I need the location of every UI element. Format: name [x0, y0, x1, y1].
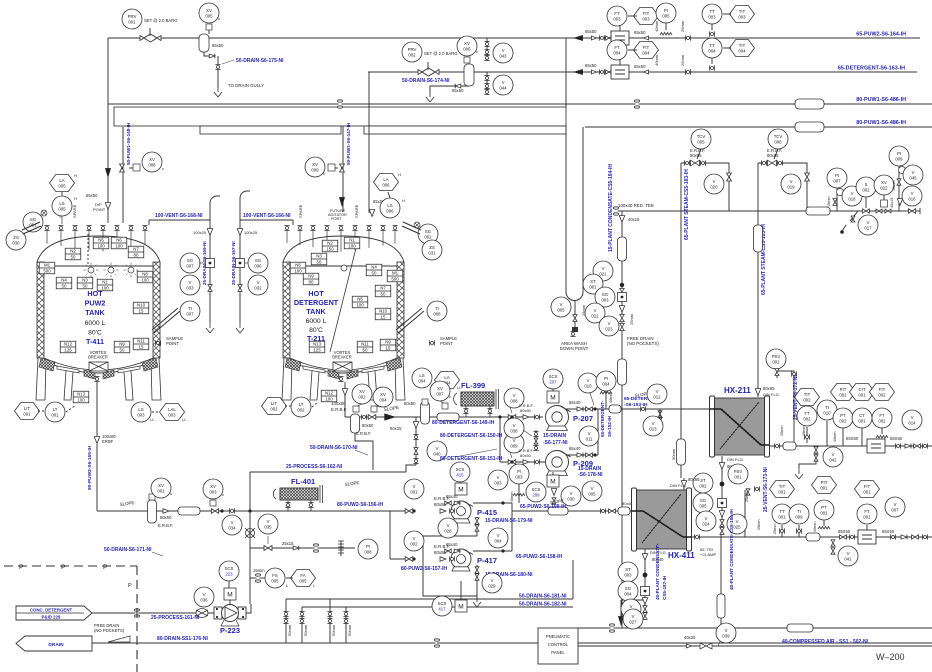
svg-text:008: 008 — [364, 549, 372, 554]
wire TCV-005 bypass loop — [681, 163, 729, 211]
instrument LA-004 — [435, 372, 460, 389]
nozzle box N10 T-211 — [375, 308, 391, 320]
reducer 100x25 — [207, 229, 212, 236]
nozzle row T-411 — [44, 225, 49, 230]
wire P-417 discharge — [473, 550, 512, 552]
manway flange T-211 — [402, 222, 421, 234]
instrument FIT-002 — [870, 384, 895, 401]
svg-text:40-PLANT CONDENSATE-CS5-186-IH: 40-PLANT CONDENSATE-CS5-186-IH — [729, 508, 734, 590]
svg-text:TI: TI — [188, 306, 192, 311]
pump P-209 — [546, 451, 571, 476]
motor P-417 — [455, 600, 467, 612]
instrument V-012 — [647, 384, 667, 404]
instrument V-016 — [902, 186, 922, 206]
pipe 80-DETERGENT-S6-149-IH — [345, 416, 543, 418]
svg-text:TT: TT — [804, 411, 810, 416]
instrument S-002 — [856, 177, 876, 197]
svg-text:018: 018 — [848, 196, 856, 201]
valve — [211, 509, 218, 513]
valve — [908, 209, 915, 213]
instrument PSV-002 — [766, 349, 786, 369]
svg-text:50-DRAIN-S6-170-NI: 50-DRAIN-S6-170-NI — [310, 445, 358, 451]
svg-text:V: V — [608, 321, 611, 326]
instrument V-028 — [438, 518, 458, 538]
svg-text:022: 022 — [880, 185, 888, 190]
svg-text:25-PROCESS-161-NI: 25-PROCESS-161-NI — [151, 615, 200, 621]
instrument XV-005 — [199, 3, 219, 23]
svg-text:40mm: 40mm — [833, 431, 837, 442]
svg-text:FIT: FIT — [864, 484, 871, 489]
spray ball T-211 — [341, 265, 347, 271]
svg-text:65X50: 65X50 — [846, 436, 859, 441]
svg-text:V: V — [502, 48, 505, 53]
svg-text:TIT: TIT — [804, 392, 811, 397]
svg-text:N11: N11 — [361, 342, 369, 347]
svg-text:100: 100 — [115, 244, 123, 249]
svg-text:027: 027 — [629, 619, 637, 624]
svg-text:25mm: 25mm — [680, 20, 685, 32]
instrument LS-004 — [412, 368, 432, 388]
instrument TT-002 — [797, 406, 817, 426]
svg-text:009: 009 — [895, 156, 903, 161]
nozzle box N6 — [111, 237, 127, 249]
svg-text:40x15: 40x15 — [628, 217, 640, 222]
instrument SG-007 — [180, 253, 200, 273]
svg-text:002: 002 — [772, 359, 780, 364]
svg-text:40-PLANT CONDENSATE-: 40-PLANT CONDENSATE- — [655, 543, 660, 600]
wire P-417 drain — [476, 565, 478, 600]
svg-text:TI: TI — [435, 306, 439, 311]
instrument V-024 — [696, 511, 716, 531]
wire drain riser 2 — [301, 607, 303, 643]
svg-text:043: 043 — [499, 53, 507, 58]
svg-text:002: 002 — [408, 52, 416, 57]
svg-text:40-COMPRESSED AIR - SS1 - 502-: 40-COMPRESSED AIR - SS1 - 502-NI — [782, 639, 869, 645]
nozzle box N2 T-211 — [322, 240, 338, 252]
svg-text:SCS: SCS — [438, 601, 447, 606]
instrument TI-010 — [817, 400, 837, 420]
wire steam into HX-411 — [683, 478, 685, 490]
svg-text:002: 002 — [297, 407, 305, 412]
svg-text:CT: CT — [859, 413, 865, 418]
flame arrester — [148, 500, 157, 523]
instrument V-029 — [482, 573, 502, 593]
instrument PI-003 — [509, 464, 529, 484]
instrument XV-002 — [352, 384, 372, 404]
svg-text:80x50: 80x50 — [520, 408, 532, 413]
tank T-211 — [282, 236, 405, 400]
instrument SG-004 — [618, 581, 638, 601]
instrument TIT-004 — [730, 40, 755, 57]
valve — [658, 411, 662, 417]
svg-text:N6: N6 — [295, 263, 301, 268]
wire FS-005 branch — [250, 577, 266, 579]
wire condensate loop left leg — [565, 126, 567, 292]
svg-text:80-PUW1-S6-486-IH: 80-PUW1-S6-486-IH — [856, 97, 906, 103]
svg-text:c: c — [218, 16, 220, 21]
svg-text:PSV: PSV — [772, 354, 781, 359]
instrument TIT-001 — [770, 481, 795, 498]
svg-text:V: V — [413, 536, 416, 541]
instrument FA-005 — [291, 570, 316, 587]
svg-text:80-PUW2-S6-156-IH: 80-PUW2-S6-156-IH — [337, 502, 384, 508]
nozzle box N9b T-211 — [380, 339, 396, 351]
instrument V-017 — [858, 215, 878, 235]
wire riser from 65-PUW2 line — [565, 38, 567, 107]
instrument V-025 — [727, 514, 747, 534]
instrument SG-003 — [595, 287, 615, 307]
motor P-223 — [224, 588, 236, 600]
pump P-223 — [214, 605, 246, 627]
instrument TI-008 — [427, 301, 447, 321]
flame arrester — [421, 402, 430, 424]
meter run 65-DETERGENT — [573, 69, 583, 75]
expansion joint — [795, 122, 824, 132]
pneumatic control panel — [538, 628, 578, 664]
svg-text:002: 002 — [410, 541, 418, 546]
svg-text:50: 50 — [381, 292, 386, 297]
thermowell TI-007 — [152, 308, 180, 333]
svg-text:003: 003 — [494, 480, 502, 485]
svg-text:006: 006 — [463, 46, 471, 51]
wire condensate drain — [620, 600, 622, 624]
svg-text:LS: LS — [387, 203, 392, 208]
svg-text:SG: SG — [625, 586, 632, 591]
svg-text:V: V — [736, 519, 739, 524]
svg-text:005: 005 — [588, 491, 596, 496]
svg-text:65X50: 65X50 — [882, 529, 895, 534]
P-417 suction valve — [405, 557, 413, 562]
svg-text:003: 003 — [708, 14, 716, 19]
valve — [475, 574, 479, 580]
svg-text:125: 125 — [64, 348, 72, 353]
instrument V-022 — [585, 303, 605, 323]
svg-text:005: 005 — [58, 183, 66, 188]
spray balls T-411 — [88, 267, 94, 273]
svg-text:40mm: 40mm — [654, 54, 659, 66]
svg-text:030: 030 — [567, 496, 575, 501]
svg-text:PIT: PIT — [840, 387, 847, 392]
svg-text:N4: N4 — [371, 265, 377, 270]
svg-text:003: 003 — [209, 489, 217, 494]
instrument V-010 — [578, 373, 598, 393]
instrument ZS-031 — [422, 240, 442, 260]
svg-text:125: 125 — [313, 348, 321, 353]
svg-text:V: V — [513, 423, 516, 428]
svg-text:V: V — [652, 421, 655, 426]
svg-text:004: 004 — [624, 591, 632, 596]
svg-text:004: 004 — [738, 48, 746, 53]
offsheet banner CONC. DETERGENT — [16, 606, 92, 620]
vent drain point — [206, 320, 214, 333]
svg-text:P-415: P-415 — [477, 508, 497, 517]
instrument V-035 — [258, 514, 278, 534]
svg-text:500: 500 — [43, 269, 51, 274]
svg-text:100x25: 100x25 — [193, 230, 207, 235]
instrument XV-009 — [305, 157, 325, 177]
instrument FS-005 — [265, 568, 285, 588]
svg-text:N12: N12 — [325, 391, 334, 396]
wire TCV-006 bypass loop — [758, 163, 807, 211]
svg-text:PT: PT — [840, 413, 846, 418]
instrument LIT-002 — [262, 398, 287, 415]
svg-text:V: V — [502, 80, 505, 85]
flow arrow down — [339, 197, 345, 207]
svg-text:001: 001 — [51, 412, 59, 417]
svg-text:PRV: PRV — [128, 14, 137, 19]
svg-text:V: V — [588, 431, 591, 436]
svg-text:044: 044 — [499, 85, 507, 90]
filter FL-399 — [454, 389, 499, 409]
wire 15-PLANT CONDENSATE / 40-PLANT CONDENSATE-CS5-185-IH — [621, 211, 623, 628]
svg-text:50-PUW1-S6-148-IH: 50-PUW1-S6-148-IH — [126, 122, 131, 165]
svg-text:003: 003 — [515, 474, 523, 479]
nozzle row T-211 — [284, 225, 289, 230]
pipe 50-DRAIN-S6-181-NI — [286, 598, 573, 600]
nozzle box N5 T-211 — [352, 296, 368, 308]
svg-text:V: V — [602, 266, 605, 271]
nozzle box N8 — [137, 271, 153, 283]
svg-text:ZS: ZS — [429, 245, 435, 250]
svg-text:LA: LA — [383, 177, 388, 182]
svg-text:M: M — [227, 591, 232, 598]
wire 25-VENT-S6-173-NI — [744, 490, 746, 537]
wire loop seal drain — [574, 300, 576, 331]
svg-text:CS5-187-IH: CS5-187-IH — [662, 575, 667, 600]
wire pump suction manifold 80-DETERGENT-S6-150-IH — [499, 417, 501, 462]
svg-text:V: V — [189, 280, 192, 285]
svg-text:c: c — [162, 166, 164, 171]
svg-text:H: H — [402, 198, 405, 203]
instrument FT-004 — [607, 40, 627, 60]
svg-text:SG: SG — [30, 217, 37, 222]
instrument SCS-415 — [450, 462, 470, 482]
svg-text:209: 209 — [532, 492, 540, 497]
svg-text:T-411: T-411 — [86, 337, 104, 346]
steam spool 50mm — [677, 439, 686, 465]
svg-text:CONC. DETERGENT: CONC. DETERGENT — [30, 608, 73, 613]
instrument XV-006 — [457, 36, 477, 56]
svg-text:80-DETERGENT-S6-151-IH: 80-DETERGENT-S6-151-IH — [440, 456, 503, 462]
svg-text:M: M — [550, 394, 555, 401]
instrument TT-001 — [772, 504, 792, 524]
svg-text:6000 L: 6000 L — [306, 318, 327, 325]
agitator shaft T-211 — [330, 240, 358, 352]
svg-text:V: V — [587, 378, 590, 383]
valve — [863, 209, 870, 213]
svg-text:V: V — [656, 389, 659, 394]
line break — [634, 100, 639, 108]
instrument XV-007 — [430, 381, 450, 401]
instrument V-020 — [704, 174, 724, 194]
svg-text:40x25: 40x25 — [684, 635, 696, 640]
svg-text:N1: N1 — [349, 238, 355, 243]
instrument V-030 — [561, 486, 581, 506]
svg-text:V: V — [203, 592, 206, 597]
svg-text:003: 003 — [738, 14, 746, 19]
svg-text:65x50: 65x50 — [585, 29, 597, 34]
PI-008 branch fittings — [264, 546, 272, 551]
svg-text:15mm: 15mm — [892, 180, 896, 191]
nozzle box N13 — [73, 391, 89, 403]
instrument FT-002 — [872, 408, 892, 428]
svg-text:80x65: 80x65 — [688, 477, 700, 482]
svg-text:V: V — [570, 491, 573, 496]
svg-text:V: V — [630, 604, 633, 609]
instrument FT-003 — [607, 6, 627, 26]
svg-text:HX-211: HX-211 — [724, 386, 751, 395]
nozzle box M1 T-411 — [39, 262, 55, 274]
sample point T-211 — [429, 340, 434, 345]
svg-text:001: 001 — [23, 411, 31, 416]
svg-text:FA: FA — [300, 573, 305, 578]
svg-text:009: 009 — [795, 514, 803, 519]
svg-text:65x50: 65x50 — [634, 30, 646, 35]
svg-text:TI: TI — [797, 509, 801, 514]
svg-text:FT: FT — [879, 413, 885, 418]
P-207 suction valve — [508, 415, 516, 420]
svg-text:417: 417 — [438, 606, 446, 611]
svg-text:PIT: PIT — [821, 480, 828, 485]
svg-text:c: c — [222, 492, 224, 497]
instrument LAL-003 — [160, 404, 185, 421]
svg-text:H: H — [74, 173, 77, 178]
pipe 25-PROCESS-S6-162-NI — [250, 471, 406, 473]
svg-text:65x50: 65x50 — [585, 63, 597, 68]
svg-text:N5: N5 — [98, 238, 104, 243]
svg-text:-S6-178-NI: -S6-178-NI — [578, 472, 603, 478]
svg-text:50mm: 50mm — [331, 624, 336, 636]
wire riser to T-411 dip point — [107, 38, 109, 223]
diaphragm valve — [245, 528, 255, 538]
svg-text:TANK: TANK — [306, 307, 326, 316]
pipe 80-PUW1-S6-486-IH lower — [585, 126, 932, 128]
svg-text:50: 50 — [372, 271, 377, 276]
sight glass element — [718, 499, 727, 508]
svg-text:010: 010 — [823, 410, 831, 415]
svg-text:004: 004 — [418, 378, 426, 383]
instrument V-019 — [781, 174, 801, 194]
reducer 100x25 b — [237, 229, 242, 236]
wire to process line — [355, 433, 373, 470]
svg-text:80x50: 80x50 — [160, 515, 172, 520]
svg-text:HOT: HOT — [308, 289, 324, 298]
svg-text:XV: XV — [206, 8, 212, 13]
svg-text:SPARE: SPARE — [298, 204, 303, 218]
svg-text:001: 001 — [820, 510, 828, 515]
vent candy-cane T-211 — [240, 191, 250, 198]
svg-text:15mm: 15mm — [827, 196, 831, 207]
instrument CIT-001 — [850, 384, 875, 401]
svg-text:PORT: PORT — [331, 217, 342, 221]
svg-text:SET @ 2.0 BARG: SET @ 2.0 BARG — [144, 18, 178, 23]
wire condensate loop right leg — [582, 127, 584, 292]
control valve TCV-006 — [768, 160, 777, 166]
svg-text:80'C: 80'C — [309, 327, 323, 334]
nozzle box N3 T-211 — [311, 253, 327, 265]
drain point — [473, 594, 481, 607]
vent candy-cane T-411 — [210, 196, 220, 203]
svg-text:024: 024 — [702, 521, 710, 526]
svg-text:LT: LT — [53, 407, 58, 412]
svg-text:S6-152-IH: S6-152-IH — [607, 415, 612, 437]
svg-text:50mm: 50mm — [347, 624, 352, 636]
svg-text:80x50: 80x50 — [520, 453, 532, 458]
svg-text:004: 004 — [602, 381, 610, 386]
instrument V-039 — [716, 623, 736, 643]
svg-text:80-PUW2-S6-157-IH: 80-PUW2-S6-157-IH — [401, 566, 448, 572]
wire HX-211 condensate drop — [721, 456, 723, 532]
svg-text:N5: N5 — [357, 297, 363, 302]
instrument V-014 — [902, 410, 922, 430]
svg-text:003: 003 — [137, 412, 145, 417]
svg-text:P&ID 229: P&ID 229 — [41, 615, 61, 620]
svg-text:c: c — [323, 171, 325, 176]
svg-text:SCS: SCS — [225, 566, 234, 571]
pipe header band — [114, 107, 566, 126]
svg-text:007: 007 — [186, 311, 194, 316]
svg-text:80x65: 80x65 — [767, 153, 779, 158]
wire T-411 bottom outlet — [96, 382, 98, 436]
svg-text:415: 415 — [456, 472, 464, 477]
svg-text:019: 019 — [787, 184, 795, 189]
instrument V-032 — [248, 275, 268, 295]
svg-text:E.R.B.F.: E.R.B.F. — [158, 523, 173, 528]
svg-text:N11: N11 — [137, 339, 145, 344]
svg-text:XV: XV — [464, 41, 470, 46]
svg-text:041: 041 — [844, 556, 852, 561]
dashed pneumatic supply line P — [4, 565, 137, 567]
svg-text:PANEL: PANEL — [551, 650, 565, 655]
svg-text:V: V — [832, 452, 835, 457]
svg-text:65x40: 65x40 — [446, 542, 458, 547]
svg-text:M1: M1 — [44, 263, 51, 268]
sample point T-411 — [155, 340, 160, 345]
svg-text:029: 029 — [488, 583, 496, 588]
instrument V-005 — [551, 297, 571, 317]
spool — [806, 207, 830, 215]
gauge valve — [833, 199, 837, 206]
svg-text:65x50: 65x50 — [634, 64, 646, 69]
valve — [475, 518, 479, 524]
instrument LS-003 — [131, 402, 151, 422]
nozzle box N4 T-211 — [366, 264, 382, 276]
instrument V-043 — [493, 43, 513, 63]
svg-text:002: 002 — [878, 392, 886, 397]
svg-text:003: 003 — [624, 572, 632, 577]
svg-text:002: 002 — [803, 416, 811, 421]
svg-text:034: 034 — [228, 525, 236, 530]
pipe 80-PUW2-S6-156-IH suction header — [97, 510, 409, 512]
instrument PRV-002 — [402, 42, 422, 62]
svg-text:SCS: SCS — [456, 467, 465, 472]
reducer 100x80 ERBF — [94, 437, 99, 444]
svg-text:E.R.B.F.: E.R.B.F. — [331, 407, 347, 412]
flow element FT-004 — [611, 65, 629, 79]
svg-text:V: V — [267, 519, 270, 524]
P-209 drain stack — [551, 489, 556, 496]
pipe 80-DRAIN-SS1-176-NI — [92, 642, 437, 644]
sight glass vent 2 — [236, 259, 245, 268]
svg-text:LAL: LAL — [168, 407, 176, 412]
instrument XV-004 — [373, 387, 393, 407]
valve XV-009 station — [340, 164, 345, 172]
svg-text:002: 002 — [839, 392, 847, 397]
instrument PSV-001 — [728, 464, 748, 484]
instrument TIT-002 — [795, 389, 820, 406]
instrument LS-006 — [380, 198, 400, 218]
wire riser 65-DETERGENT to T-211 — [368, 72, 370, 213]
